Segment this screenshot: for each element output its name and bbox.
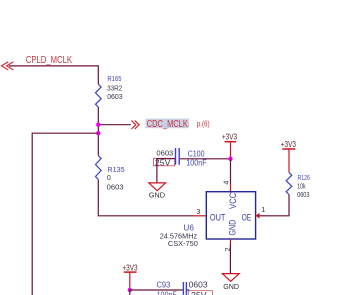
label C93 100nF [157,280,177,295]
svg-text:+3V3: +3V3 [281,140,297,149]
junction node VCC/C100 [228,157,232,161]
junction node C93 [128,288,132,292]
capacitor C100 [176,148,180,165]
svg-text:R135: R135 [107,167,124,174]
power symbol +3V3 (C93) [122,263,138,290]
oscillator U6 body [206,192,255,239]
off-page connector chevron CDC_MCLK [132,121,140,129]
label R165 33R2 0603 [107,76,123,101]
label C100 100nF [186,148,206,167]
junction node at left branch [96,131,100,135]
svg-text:CPLD_MCLK: CPLD_MCLK [26,55,72,66]
resistor R165 [96,84,102,107]
capacitor C93 [183,282,189,295]
label R135 0 0603 [107,167,125,192]
svg-text:3: 3 [196,207,200,216]
svg-text:+3V3: +3V3 [222,133,238,142]
svg-text:OUT: OUT [210,212,226,223]
svg-text:0603: 0603 [297,192,309,199]
U6 port names [210,193,251,236]
label 0603 25V of C100 [153,149,174,168]
off-page connector chevron CPLD_MCLK [1,62,13,70]
svg-text:OE: OE [242,212,252,223]
wire C93 node down and right [130,290,183,295]
svg-text:GND: GND [227,220,238,236]
svg-text:R126: R126 [298,173,310,182]
power symbol +3V3 (R126 pullup) [281,140,297,173]
svg-text:0603: 0603 [107,94,123,101]
svg-text:4: 4 [222,181,231,185]
svg-text:CSX-750: CSX-750 [168,239,198,248]
svg-text:C93: C93 [157,280,171,289]
svg-text:0603: 0603 [107,185,124,192]
pin 2 stub of U6 [229,239,231,244]
label 0603 25V of C93 [188,280,212,295]
wire C100 left to GND [157,159,175,183]
resistor R126 [286,172,292,194]
wire left branch down page [32,133,98,295]
svg-text:0603: 0603 [156,149,173,158]
wire U6 pin2 to ground [229,244,231,274]
net label CDC_MCLK highlighted [146,119,190,130]
label R126 10k 0603 [297,173,310,199]
svg-text:25V: 25V [191,291,207,295]
svg-text:VCC: VCC [228,193,239,209]
svg-text:CDC_MCLK: CDC_MCLK [147,119,188,130]
resistor R135 [96,156,102,180]
ground symbol GND (C100) [149,183,166,200]
svg-text:p.(6): p.(6) [197,118,210,128]
svg-text:100nF: 100nF [157,290,177,295]
wire branch to CDC_MCLK [98,124,131,126]
wire VCC node to U6 pin 4 [230,159,232,184]
wire C100 right to VCC node [180,158,231,160]
wire R165 to R135 [97,107,99,156]
svg-text:33R2: 33R2 [107,85,122,92]
wire R135 to U6 OUT pin [98,180,193,216]
power symbol +3V3 (VCC of U6) [222,133,238,159]
pin 1 stub of U6 with input arrow [256,205,269,218]
svg-text:0603: 0603 [189,280,208,289]
svg-text:+3V3: +3V3 [122,263,138,272]
pin 3 stub of U6 [193,215,206,217]
wire CPLD_MCLK to R165 [9,66,98,84]
ground symbol GND (U6 pin2) [222,274,239,291]
pin 4 stub of U6 [230,184,232,192]
pin connection dot at U6 pin 4 [229,191,231,193]
junction node at R165/CDC [96,123,100,127]
svg-text:GND: GND [149,191,166,200]
svg-text:1: 1 [261,205,265,214]
svg-text:GND: GND [223,282,239,291]
svg-text:0: 0 [107,175,111,182]
wire U6 OE to R126 [269,195,289,216]
svg-text:10k: 10k [297,183,306,190]
svg-text:R165: R165 [107,76,121,83]
label U6 24.576MHz CSX-750 [160,224,198,248]
